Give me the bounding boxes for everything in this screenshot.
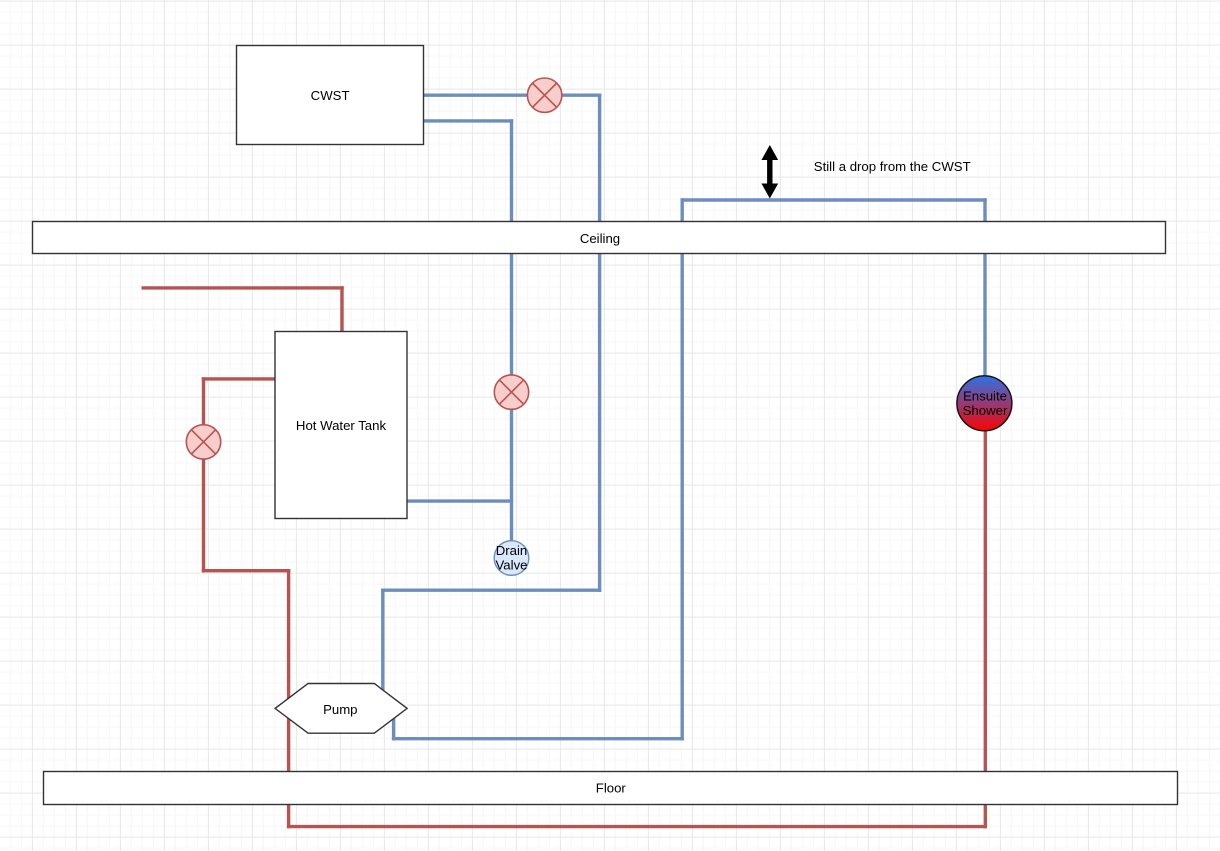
wire: cold pipe vertical below pump <box>392 709 395 739</box>
wire: hot vent pipe open end (horizontal) <box>143 286 342 289</box>
svg-text:Hot Water Tank: Hot Water Tank <box>296 418 387 433</box>
ensuite shower outlet <box>957 376 1012 431</box>
wire: cold pipe bottom horizontal run <box>394 737 683 740</box>
wire: hot pipe riser to ensuite shower <box>984 428 987 827</box>
svg-text:Drain: Drain <box>496 543 528 558</box>
valve V1 (on cold pipe from CWST) <box>527 78 561 112</box>
wire: hot pipe vertical through valve V2 <box>202 379 205 571</box>
wire: hot pipe bottom horizontal run under floor <box>289 825 986 828</box>
wire: cold pipe riser up through ceiling <box>681 200 684 739</box>
svg-text:CWST: CWST <box>311 88 350 103</box>
wire: cold feed vertical through valve V3 to drain valve <box>510 121 513 541</box>
wire: hot vent pipe drop into tank top <box>340 288 343 332</box>
annotation arrow: vertical double arrow <box>762 146 777 198</box>
wire: cold feed CWST to hot water tank (horizontal) <box>424 119 512 122</box>
wire: cold pipe drop to ensuite shower <box>983 200 986 378</box>
wire: hot pipe from tank left side <box>204 377 276 380</box>
slab: Ceiling <box>33 222 1166 254</box>
wire: hot pipe horizontal to pump riser <box>204 569 289 572</box>
wire: cold pipe jog hidden behind pump <box>383 707 394 710</box>
svg-text:Ceiling: Ceiling <box>580 231 620 246</box>
drain valve <box>494 541 529 576</box>
svg-text:Still a drop from the CWST: Still a drop from the CWST <box>814 159 971 174</box>
valve V2 (on hot pipe, left) <box>186 425 220 459</box>
wire: cold pipe horizontal above ceiling (still a drop) <box>682 198 985 201</box>
tank: Hot Water Tank <box>275 332 407 519</box>
svg-text:Valve: Valve <box>495 558 527 573</box>
tank CWST <box>237 46 424 145</box>
svg-text:Floor: Floor <box>596 781 627 796</box>
wire: cold pipe horizontal toward pump <box>383 589 600 592</box>
wire: hot pipe vertical behind pump and floor <box>287 571 290 827</box>
wire: cold pipe main vertical drop through ceiling <box>598 95 601 590</box>
valve V3 (on cold feed to tank) <box>494 375 528 409</box>
svg-text:Pump: Pump <box>323 702 357 717</box>
svg-text:Shower: Shower <box>963 403 1008 418</box>
wire: cold pipe vertical behind pump <box>381 590 384 708</box>
pump P1 (hexagon) <box>275 684 407 734</box>
svg-text:Ensuite: Ensuite <box>963 389 1007 404</box>
wire: cold pipe CWST outlet to valve V1 (horizontal) <box>424 93 600 96</box>
wire: pipe from hot water tank outlet to drain line <box>407 499 512 502</box>
slab: Floor <box>44 772 1178 805</box>
